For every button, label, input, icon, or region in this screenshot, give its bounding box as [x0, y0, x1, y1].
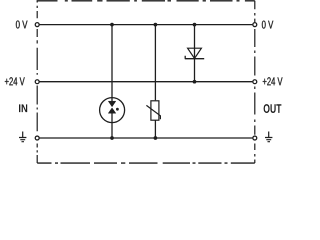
suppressor diode cathode bar with bent end — [185, 56, 204, 59]
GDT upper electrode arrow (down) — [108, 101, 116, 107]
terminal 0V IN — [35, 23, 39, 27]
ground symbol IN (left) — [19, 132, 26, 142]
junction dot 0V/varistor — [154, 23, 158, 27]
enclosure border right (dash-dot) — [254, 1, 256, 163]
terminal ground IN — [35, 136, 39, 140]
wire diode branch lower (diode to +24V rail) — [194, 59, 196, 82]
wire GDT branch upper (0V rail to tube) — [111, 25, 113, 102]
enclosure border top (dash-dot) — [37, 0, 255, 2]
suppressor diode triangle — [188, 48, 202, 58]
ground symbol OUT (right) — [265, 132, 272, 142]
label IN — [19, 104, 27, 112]
wire GDT branch lower (tube to ground rail) — [111, 113, 113, 138]
varistor diagonal stroke with tail — [146, 105, 160, 119]
wire ground rail — [39, 137, 252, 139]
label 0 V (IN side) — [16, 21, 28, 29]
wire diode branch upper (0V rail to diode) — [194, 25, 196, 59]
terminal +24V OUT — [253, 80, 257, 84]
label 0 V (OUT side) — [262, 21, 273, 29]
label OUT — [264, 104, 282, 113]
terminal 0V OUT — [253, 23, 257, 27]
junction dot ground/GDT — [110, 136, 114, 140]
label +24 V (OUT side) — [263, 77, 283, 85]
terminal +24V IN — [35, 80, 39, 84]
enclosure border left (dash-dot) — [36, 1, 38, 163]
wire varistor branch lower (varistor to ground rail) — [154, 120, 156, 138]
junction dot ground/varistor — [154, 136, 158, 140]
terminal ground OUT — [253, 136, 257, 140]
junction dot 0V/GDT — [110, 23, 114, 27]
wire 0V rail — [39, 24, 252, 26]
enclosure border bottom (dash-dot) — [37, 162, 255, 164]
wire +24V rail — [39, 81, 252, 83]
junction dot +24V/diode — [193, 80, 197, 84]
varistor body rectangle — [151, 101, 159, 120]
junction dot 0V/diode — [193, 23, 197, 27]
wire varistor branch upper (0V rail to varistor) — [154, 25, 156, 101]
GDT lower electrode arrow (up) — [108, 108, 116, 113]
label +24 V (IN side) — [5, 77, 25, 85]
gas discharge tube (arrester) body circle — [100, 98, 125, 123]
GDT gas-filled indicator dot — [116, 108, 119, 111]
